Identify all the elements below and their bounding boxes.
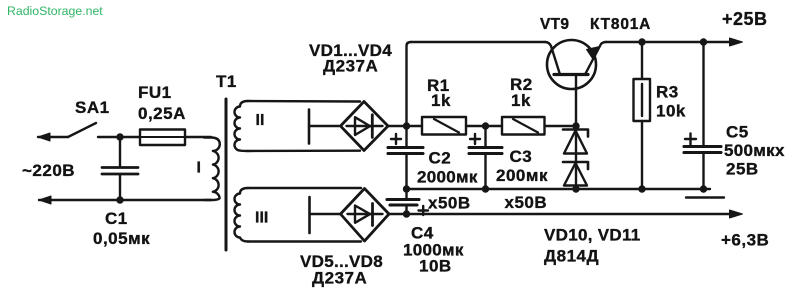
junction C3/common rail: [482, 185, 489, 192]
junction C5 top: [700, 38, 707, 45]
AC input arrow top: [38, 133, 50, 141]
svg-text:х50В: х50В: [428, 194, 471, 213]
svg-text:10k: 10k: [656, 102, 686, 121]
svg-text:RadioStorage.net: RadioStorage.net: [7, 4, 103, 18]
top rail to transistor: [411, 41, 545, 43]
svg-text:Д814Д: Д814Д: [544, 247, 599, 266]
junction base/zener: [572, 122, 579, 129]
wire R1 to R2: [466, 125, 502, 127]
zener diodes VD10 VD11: [575, 126, 577, 189]
fuse FU1: [140, 130, 185, 146]
svg-text:500мкх: 500мкх: [724, 141, 785, 160]
svg-text:III: III: [255, 210, 268, 227]
winding II loop top/bottom wires: [248, 101, 360, 151]
svg-text:+25В: +25В: [722, 9, 768, 29]
top rail transistor to output: [606, 41, 735, 43]
svg-text:C3: C3: [510, 147, 533, 166]
junction C4 bottom: [403, 210, 410, 217]
svg-text:C2: C2: [429, 149, 452, 168]
resistor R1: [422, 117, 466, 135]
common rail tail: [686, 196, 724, 198]
junction R3 top: [638, 38, 645, 45]
svg-text:х50В: х50В: [505, 193, 548, 212]
output arrow +25В: [730, 38, 743, 46]
svg-text:200мк: 200мк: [496, 166, 548, 185]
svg-text:0,05мк: 0,05мк: [93, 229, 150, 248]
bridge rectifier VD5...VD8: [341, 189, 390, 242]
wire bar to bridge 2: [310, 213, 341, 215]
wire R2 to base node: [545, 125, 577, 127]
svg-text:2000мк: 2000мк: [417, 168, 478, 187]
svg-text:FU1: FU1: [138, 83, 172, 102]
output arrow +6,3В: [730, 210, 743, 218]
wire bridge1 to node: [388, 125, 422, 127]
resistor R3: [641, 42, 643, 79]
svg-text:T1: T1: [216, 72, 237, 91]
resistor R2: [502, 117, 545, 135]
svg-text:1k: 1k: [431, 91, 451, 110]
capacitor C1: [119, 137, 121, 167]
junction R1/R2/C3: [482, 122, 489, 129]
junction C1 top: [116, 133, 123, 140]
node bar in winding III: [308, 197, 311, 233]
svg-text:~220В: ~220В: [22, 161, 75, 180]
svg-text:C1: C1: [105, 209, 128, 228]
switch SA1: [68, 123, 96, 137]
svg-text:SA1: SA1: [75, 98, 110, 117]
svg-text:+6,3В: +6,3В: [721, 231, 769, 250]
svg-text:КТ801А: КТ801А: [590, 16, 651, 33]
capacitor C3: [484, 126, 486, 147]
wire riser to top rail: [407, 42, 412, 126]
secondary winding II (scalloped left edge of loop): [235, 101, 249, 151]
junction C1 bottom: [116, 196, 123, 203]
wire fuse to transformer: [185, 136, 211, 138]
wire bridge2 to 6.3V rail: [390, 213, 736, 215]
wire bar to bridge 1: [309, 125, 339, 127]
svg-text:VT9: VT9: [540, 16, 569, 33]
junction bridge1 output: [403, 122, 410, 129]
junction zener/common rail: [572, 185, 579, 192]
svg-text:Д237А: Д237А: [312, 269, 367, 288]
secondary winding III: [235, 188, 249, 242]
svg-text:C5: C5: [726, 123, 749, 142]
svg-text:10В: 10В: [419, 257, 452, 276]
svg-text:Д237А: Д237А: [323, 57, 378, 76]
capacitor C4: [405, 189, 407, 199]
common rail: [407, 188, 711, 190]
node bar in winding II: [308, 110, 311, 144]
svg-text:II: II: [256, 112, 265, 129]
transformer core: [225, 99, 228, 250]
svg-text:I: I: [197, 160, 201, 177]
AC input arrow bottom: [39, 196, 51, 204]
junction C5/common rail: [700, 185, 707, 192]
wire switch to fuse: [98, 136, 140, 138]
primary winding I: [204, 138, 220, 201]
svg-text:VD10, VD11: VD10, VD11: [544, 226, 641, 245]
svg-text:25В: 25В: [726, 160, 759, 179]
bridge rectifier VD1...VD4: [341, 102, 389, 151]
junction R3/common rail: [638, 185, 645, 192]
svg-text:R3: R3: [656, 83, 679, 102]
wire AC top left: [38, 136, 68, 138]
capacitor C2: [405, 126, 407, 147]
capacitor C5: [702, 42, 704, 146]
transistor VT9: [547, 40, 596, 89]
wire AC bottom: [39, 199, 211, 201]
svg-text:1k: 1k: [511, 91, 531, 110]
junction C2/common rail: [403, 185, 410, 192]
svg-text:0,25А: 0,25А: [138, 104, 186, 123]
